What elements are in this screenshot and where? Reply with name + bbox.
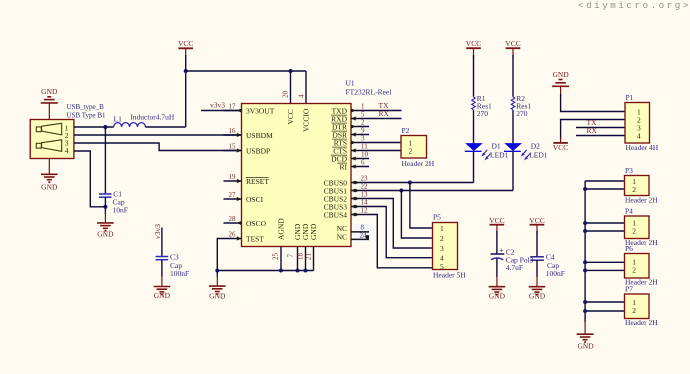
connector P7 Header 2H [625, 285, 659, 328]
wire RXD net [369, 118, 402, 120]
pin 26 TEST [224, 231, 265, 244]
svg-text:USBDP: USBDP [246, 146, 270, 155]
svg-text:17: 17 [229, 103, 237, 111]
svg-text:+: + [499, 245, 503, 254]
svg-text:RX: RX [379, 109, 390, 118]
pin 14 CBUS3 [324, 199, 369, 212]
svg-text:19: 19 [229, 173, 237, 181]
svg-text:2: 2 [632, 227, 636, 236]
svg-text:VCC: VCC [286, 109, 295, 124]
wire pin 4 VCCIO drop [305, 71, 307, 104]
svg-text:GND: GND [209, 292, 226, 301]
pin 23 CBUS0 [324, 175, 369, 188]
junction C1/GND/pin4 [103, 205, 107, 209]
wire CBUS0 net [369, 182, 474, 184]
wire TX to P1 pin3 [576, 127, 625, 129]
LED D2 [504, 142, 548, 161]
connector P1 Header 4H [625, 93, 659, 152]
svg-text:GND: GND [529, 292, 546, 301]
svg-text:3: 3 [361, 135, 365, 143]
svg-text:v3v3: v3v3 [153, 224, 162, 239]
svg-text:21: 21 [305, 253, 313, 261]
wire TEST pin to ground rail [217, 239, 223, 271]
pin 28 OSCO [224, 215, 267, 228]
svg-text:18: 18 [297, 253, 305, 261]
pin 5 RXD [331, 111, 369, 124]
svg-text:v3v3: v3v3 [210, 101, 225, 110]
pin 18 GND bottom [297, 223, 310, 270]
wire chip ground rail [217, 270, 313, 272]
junction bus P4 pin2 [583, 229, 587, 233]
wire VCC to C2 [496, 231, 498, 254]
svg-text:5: 5 [361, 111, 365, 119]
ground GND at bus bottom [577, 321, 595, 351]
svg-text:2: 2 [361, 119, 365, 127]
svg-text:8: 8 [361, 224, 365, 232]
junction GND18 rail [304, 269, 308, 273]
ground GND above P1 [552, 70, 569, 96]
svg-text:USB_type_B: USB_type_B [67, 103, 105, 111]
svg-text:22: 22 [361, 183, 369, 191]
svg-text:10: 10 [361, 151, 369, 159]
power VCC below P1 pin2 [553, 137, 568, 152]
pin 15 USBDP [224, 143, 271, 156]
svg-text:TEST: TEST [246, 234, 264, 243]
svg-text:NC: NC [337, 233, 347, 242]
wire 3V3OUT pin 17 [201, 110, 242, 112]
svg-text:P7: P7 [625, 285, 633, 294]
connector P2 Header 2H [401, 126, 435, 168]
pin 16 USBDM [224, 127, 274, 140]
svg-text:1: 1 [440, 224, 444, 233]
svg-text:P1: P1 [626, 93, 634, 102]
capacitor C2 polarized [491, 245, 534, 272]
wire VCC to R2 [512, 55, 514, 97]
power VCC above C4 [529, 216, 544, 233]
pin 1 TXD [332, 103, 369, 116]
connector P6 Header 2H [625, 244, 659, 287]
svg-text:P6: P6 [625, 244, 633, 253]
pin 17 3V3OUT [224, 103, 275, 116]
ground GND below USB connector [41, 159, 58, 192]
svg-text:VCCIO: VCCIO [302, 108, 311, 132]
wire C4 to ground [536, 260, 538, 277]
wire RTS to P2 pin1 [369, 142, 401, 144]
wire VCC to C4 [536, 231, 538, 257]
svg-text:2: 2 [632, 266, 636, 275]
wire CBUS1 branch to P5 pin2 [401, 191, 432, 239]
pin 27 OSCI [224, 191, 264, 204]
svg-text:2: 2 [409, 147, 413, 156]
connector USB Type B1 [30, 103, 106, 159]
wire inductor to VCC riser [145, 126, 185, 128]
svg-text:D1: D1 [492, 142, 501, 151]
svg-text:VCC: VCC [553, 143, 568, 152]
capacitor C1 [99, 190, 128, 215]
svg-text:26: 26 [229, 231, 237, 239]
svg-text:RI: RI [340, 162, 348, 171]
junction CBUS0 to P5 [408, 181, 412, 185]
svg-text:1: 1 [361, 103, 365, 111]
svg-text:P5: P5 [433, 213, 441, 222]
svg-text:Header 5H: Header 5H [433, 271, 466, 280]
svg-text:USBDM: USBDM [246, 131, 273, 140]
svg-text:6: 6 [361, 159, 365, 167]
power VCC left [178, 39, 193, 57]
svg-text:FT232RL-Reel: FT232RL-Reel [346, 88, 392, 97]
wire CBUS3 to P5 pin4 [369, 207, 433, 258]
wire VCC riser to inductor node [185, 55, 187, 127]
inductor L1 [114, 113, 175, 128]
wire C1 top branch [104, 127, 106, 194]
svg-text:23: 23 [361, 175, 369, 183]
svg-text:GND: GND [97, 230, 114, 239]
junction bus P7 pin2 [583, 309, 587, 313]
capacitor C4 [530, 253, 565, 278]
wire P7 pin1 [585, 301, 624, 303]
connector P3 Header 2H [625, 166, 659, 205]
svg-text:RESET: RESET [246, 177, 269, 186]
svg-text:9: 9 [361, 127, 365, 135]
junction at VCC pin 20 [289, 69, 293, 73]
ground GND above USB connector [41, 87, 58, 120]
svg-text:27: 27 [229, 191, 237, 199]
pin 20 VCC top [282, 91, 296, 125]
svg-text:RX: RX [587, 126, 598, 135]
op-amp U1 FT232RL body [242, 104, 352, 247]
wire VCC rail to chip supply pins [186, 70, 306, 72]
svg-text:12: 12 [361, 207, 369, 215]
wire CTS to P2 pin2 [369, 150, 401, 152]
svg-text:15: 15 [229, 143, 237, 151]
svg-text:4: 4 [65, 146, 69, 155]
wire USB pin2 to USBDM [74, 134, 242, 136]
svg-text:3: 3 [440, 244, 444, 253]
power VCC above C2 [489, 216, 504, 233]
ground GND below C2 [489, 275, 506, 301]
power VCC above R1 [466, 39, 481, 57]
svg-text:4: 4 [637, 131, 641, 140]
resistor R2 [511, 94, 531, 118]
svg-text:4: 4 [298, 94, 306, 98]
capacitor C3 [156, 253, 190, 279]
junction bus P6 pin2 [583, 268, 587, 272]
junction on VBUS at C1 branch [103, 125, 107, 129]
svg-text:13: 13 [361, 191, 369, 199]
svg-text:GND: GND [489, 292, 506, 301]
pin 7 GND bottom [287, 223, 302, 270]
svg-text:GND: GND [309, 223, 318, 240]
pin 25 AGND bottom [272, 218, 286, 271]
pin 21 GND bottom [305, 223, 318, 270]
junction bus P4 pin1 [583, 221, 587, 225]
svg-text:Inductor4.7uH: Inductor4.7uH [130, 113, 175, 122]
wire ground bus vertical [584, 181, 586, 323]
junction CBUS1 to P5 [399, 189, 403, 193]
svg-text:10nF: 10nF [113, 206, 128, 215]
svg-text:VCC: VCC [489, 216, 504, 225]
junction AGND rail [279, 269, 283, 273]
svg-text:GND: GND [154, 291, 171, 300]
wire P7 pin2 [585, 310, 624, 312]
pin 19 RESET [224, 173, 270, 186]
svg-text:2: 2 [632, 185, 636, 194]
svg-text:4.7uF: 4.7uF [506, 263, 523, 272]
svg-text:7: 7 [287, 254, 295, 258]
wire R2 to D2 [512, 110, 514, 143]
svg-text:GND: GND [577, 342, 594, 351]
svg-text:VCC: VCC [505, 39, 520, 48]
svg-text:Header 2H: Header 2H [402, 159, 435, 168]
wire CBUS0 riser to D1 [473, 151, 475, 182]
wire USB pin4 ground return [74, 151, 105, 207]
svg-text:VCC: VCC [466, 39, 481, 48]
pin 8 NC [337, 224, 371, 242]
wire CBUS2 to P5 pin3 [369, 199, 433, 249]
pin 6 RI [337, 159, 369, 172]
pin 2 DTR [332, 119, 370, 132]
pin 9 DSR [332, 127, 370, 140]
wire CBUS1 riser to D2 [512, 151, 514, 190]
svg-text:U1: U1 [346, 79, 355, 88]
wire RX to P1 pin4 [576, 135, 625, 137]
svg-text:<diymicro.org>: <diymicro.org> [578, 0, 690, 11]
svg-text:270: 270 [477, 109, 489, 118]
pin 12 CBUS4 [324, 207, 369, 220]
svg-text:GND: GND [41, 183, 58, 192]
wire USB pin3 to USBDP [74, 143, 242, 151]
svg-text:P2: P2 [402, 126, 410, 135]
svg-text:USB Type B1: USB Type B1 [67, 112, 107, 120]
wire TXD net [369, 110, 402, 112]
ground GND below C4 [529, 275, 546, 301]
pin 4 VCCIO top [298, 94, 311, 132]
connector P4 Header 2H [625, 207, 659, 248]
wire pin 20 VCC drop [290, 71, 292, 104]
svg-text:14: 14 [361, 199, 369, 207]
svg-text:D2: D2 [531, 142, 540, 151]
svg-text:2: 2 [632, 306, 636, 315]
connector P5 Header 5H [433, 213, 467, 280]
svg-text:Header 2H: Header 2H [625, 196, 658, 205]
wire GND to P1 pin1 [561, 94, 625, 112]
svg-text:VCC: VCC [529, 216, 544, 225]
pin 10 DCD [331, 151, 369, 164]
pin 3 RTS [332, 135, 369, 148]
junction GND7 rail [296, 269, 300, 273]
pin 11 CTS [332, 143, 369, 156]
wire P6 pin2 [585, 269, 624, 271]
wire CBUS0 branch to P5 pin1 [410, 183, 433, 229]
svg-text:AGND: AGND [277, 218, 286, 240]
svg-text:Header 4H: Header 4H [626, 143, 659, 152]
svg-text:L1: L1 [114, 115, 123, 124]
svg-text:P3: P3 [625, 166, 633, 175]
ground GND below chip [209, 271, 226, 301]
svg-text:100nF: 100nF [170, 269, 189, 278]
pin 22 CBUS1 [324, 183, 369, 196]
svg-text:3V3OUT: 3V3OUT [246, 106, 275, 115]
power VCC above R2 [505, 39, 520, 57]
LED D1 [465, 142, 509, 161]
svg-text:CBUS4: CBUS4 [324, 210, 348, 219]
svg-text:GND: GND [552, 70, 569, 79]
wire CBUS1 net [369, 190, 513, 192]
svg-text:LED1: LED1 [529, 151, 548, 160]
wire P1 pin2 to VCC [561, 120, 625, 140]
svg-text:25: 25 [272, 253, 280, 261]
svg-text:GND: GND [41, 87, 58, 96]
junction VCC rail branch [184, 69, 188, 73]
wire C1 bottom to ground junction [104, 197, 106, 207]
junction bus P3 pin2 [583, 187, 587, 191]
wire P3 pin1 [585, 180, 624, 182]
wire P6 pin1 [585, 261, 624, 263]
wire C2 to ground [496, 259, 498, 278]
svg-text:270: 270 [516, 109, 528, 118]
junction bus P7 pin1 [583, 300, 587, 304]
wire VBUS: USB pin1 to inductor and junction [74, 126, 114, 128]
wire P4 pin1 [585, 222, 624, 224]
pin 24 NC [337, 232, 369, 242]
svg-text:20: 20 [282, 91, 290, 99]
svg-text:16: 16 [229, 127, 237, 135]
svg-text:Header 2H: Header 2H [625, 318, 658, 327]
svg-text:VCC: VCC [178, 39, 193, 48]
svg-text:P4: P4 [625, 207, 633, 216]
svg-text:OSCO: OSCO [246, 219, 267, 228]
svg-text:OSCI: OSCI [246, 195, 264, 204]
wire R1 to D1 [473, 110, 475, 143]
wire VCC to R1 [473, 55, 475, 97]
ground GND below C1 [97, 207, 114, 239]
wire v3v3 to C3 [161, 228, 163, 257]
wire P3 pin2 [585, 188, 624, 190]
resistor R1 [472, 94, 492, 118]
ground GND below C3 [154, 260, 171, 300]
wire P4 pin2 [585, 230, 624, 232]
junction bus P6 pin1 [583, 260, 587, 264]
wire CBUS4 to P5 pin5 [369, 215, 433, 268]
junction TEST/ground rail [215, 269, 219, 273]
pin 13 CBUS2 [324, 191, 369, 204]
svg-text:100nF: 100nF [546, 269, 565, 278]
svg-text:2: 2 [440, 234, 444, 243]
svg-text:11: 11 [361, 143, 368, 151]
svg-text:28: 28 [229, 215, 237, 223]
